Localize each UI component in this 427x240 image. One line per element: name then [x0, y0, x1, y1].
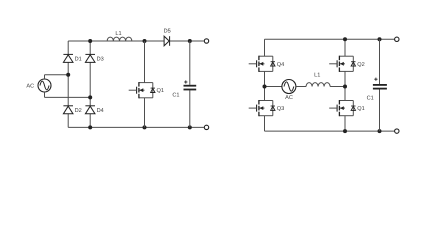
ac source AC (right) [282, 80, 296, 102]
node right top rail Q2 junction [343, 37, 347, 41]
wire left leg mid upper [264, 71, 266, 86]
wire Q1 source [144, 98, 146, 128]
svg-text:D2: D2 [75, 108, 82, 114]
terminal output + (left) [204, 39, 208, 43]
wire L1 to right node [330, 86, 345, 88]
wire right leg upper [344, 39, 346, 56]
node left leg midpoint [263, 85, 267, 89]
wire left top rail [68, 40, 204, 42]
node top rail D3 junction [88, 39, 92, 43]
inductor L1 (left) [107, 31, 132, 41]
transistor Q1 (boost MOSFET) [129, 82, 164, 98]
wire right bottom rail [265, 130, 395, 132]
node top rail output junction [188, 39, 192, 43]
svg-text:D3: D3 [97, 57, 104, 63]
wire node to AC [265, 86, 282, 88]
wire left bottom rail [68, 126, 204, 128]
diode D2 [63, 106, 81, 114]
terminal output - (left) [204, 125, 208, 129]
svg-text:L1: L1 [115, 31, 121, 37]
ac source AC (left) [26, 75, 51, 98]
terminal output + (right) [395, 37, 399, 41]
wire C1 top lead (right) [379, 39, 381, 84]
wire AC bottom to bridge [45, 96, 91, 98]
diode D1 [63, 54, 81, 62]
wire bridge column D1 D2 [67, 41, 69, 127]
wire left leg upper [264, 39, 266, 56]
svg-text:L1: L1 [314, 72, 320, 78]
capacitor C1 (left) [172, 80, 196, 98]
transistor Q2 [329, 56, 365, 72]
wire right leg mid lower [344, 87, 346, 101]
svg-text:D5: D5 [164, 29, 171, 35]
wire C1 bottom lead (left) [189, 90, 191, 127]
node AC top junction [66, 73, 70, 77]
svg-text:AC: AC [285, 95, 293, 101]
transistor Q3 [249, 100, 285, 116]
svg-text:Q1: Q1 [357, 106, 364, 112]
node bottom rail D4 junction [88, 125, 92, 129]
node bottom rail Q1 source junction [143, 125, 147, 129]
terminal output - (right) [395, 129, 399, 133]
transistor Q1 (right) [329, 100, 365, 116]
svg-text:D1: D1 [75, 57, 82, 63]
svg-text:D4: D4 [97, 108, 104, 114]
svg-text:Q2: Q2 [357, 62, 364, 68]
transistor Q4 [249, 56, 285, 72]
wire C1 top lead (left) [189, 41, 191, 85]
node AC bottom junction [88, 95, 92, 99]
wire C1 bottom lead (right) [379, 90, 381, 132]
node right bottom rail C1 junction [378, 129, 382, 133]
node right bottom rail Q1 junction [343, 129, 347, 133]
inductor L1 (right) [306, 72, 330, 86]
wire AC to L1 [296, 86, 306, 88]
svg-text:AC: AC [26, 84, 34, 90]
svg-text:Q4: Q4 [277, 62, 284, 68]
capacitor C1 (right) [367, 78, 387, 102]
diode D5 [164, 29, 171, 46]
svg-text:C1: C1 [367, 95, 374, 101]
wire bridge column D3 D4 [89, 41, 91, 127]
wire AC top to bridge [45, 74, 69, 76]
wire left leg mid lower [264, 87, 266, 101]
node right leg midpoint [343, 85, 347, 89]
wire right leg lower [344, 116, 346, 131]
diode D3 [85, 54, 103, 62]
node top rail Q1 drain junction [143, 39, 147, 43]
wire right leg mid upper [344, 71, 346, 86]
wire right top rail [265, 38, 395, 40]
node right top rail C1 junction [378, 37, 382, 41]
wire left leg lower [264, 116, 266, 131]
svg-text:Q1: Q1 [157, 88, 164, 94]
node bottom rail C1 junction [188, 125, 192, 129]
diode D4 [85, 106, 103, 114]
wire Q1 drain [144, 41, 146, 83]
svg-text:Q3: Q3 [277, 106, 284, 112]
svg-text:C1: C1 [172, 93, 179, 99]
